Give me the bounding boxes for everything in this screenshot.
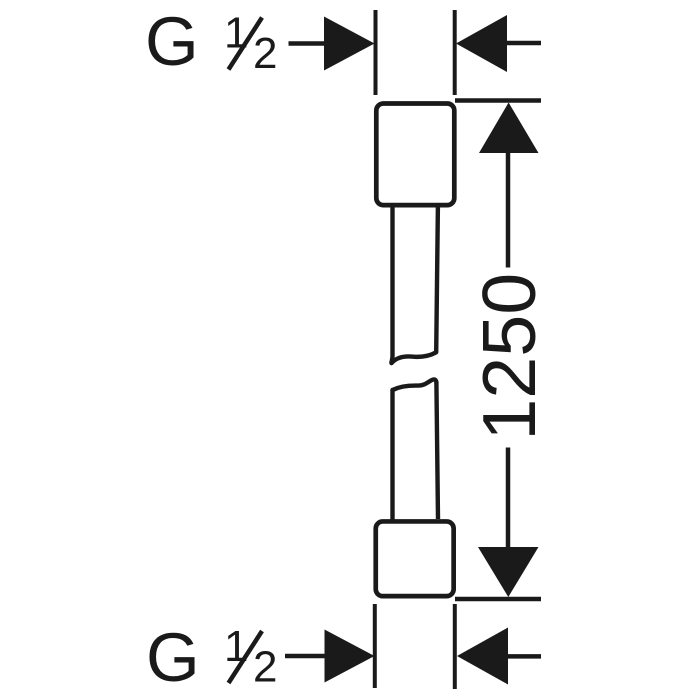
1250 extension line top bbox=[455, 98, 541, 103]
bottom dimension arrow right (points left) bbox=[457, 628, 508, 685]
svg-text:G: G bbox=[145, 3, 199, 80]
hose upper segment right edge bbox=[436, 206, 438, 352]
svg-text:2: 2 bbox=[253, 643, 277, 692]
hose lower break wave bbox=[393, 379, 437, 390]
top extension line right bbox=[453, 10, 457, 95]
svg-text:1250: 1250 bbox=[467, 273, 551, 441]
svg-text:G: G bbox=[146, 619, 200, 696]
svg-text:1: 1 bbox=[224, 622, 248, 671]
top extension line left bbox=[374, 10, 378, 95]
bottom label 1/2 slash bbox=[229, 631, 263, 683]
hose upper break wave bbox=[392, 352, 437, 363]
bottom extension line right bbox=[453, 604, 457, 689]
1250 dimension line lower segment bbox=[506, 448, 511, 549]
bottom dimension arrow left (points right) bbox=[325, 630, 375, 683]
top hose connector bbox=[376, 104, 454, 206]
top label 1/2 slash bbox=[229, 18, 263, 70]
top dimension arrow right (points left) bbox=[456, 15, 507, 72]
top dimension leader right bbox=[506, 41, 541, 46]
1250 extension line bottom bbox=[455, 597, 541, 602]
1250 arrow up bbox=[479, 103, 539, 154]
svg-text:2: 2 bbox=[253, 29, 277, 78]
1250 dimension line upper segment bbox=[506, 152, 511, 268]
1250 arrow down bbox=[478, 547, 539, 597]
bottom hose connector bbox=[376, 521, 454, 596]
bottom dimension leader left bbox=[285, 654, 326, 659]
svg-text:1: 1 bbox=[224, 9, 248, 58]
bottom dimension leader right bbox=[507, 654, 541, 659]
hose lower segment right edge bbox=[436, 383, 438, 519]
top dimension leader left bbox=[289, 41, 327, 46]
bottom extension line left bbox=[373, 604, 377, 688]
hose lower segment left edge bbox=[390, 390, 394, 519]
top dimension arrow left (points right) bbox=[324, 17, 375, 71]
hose upper segment left edge bbox=[391, 206, 392, 363]
